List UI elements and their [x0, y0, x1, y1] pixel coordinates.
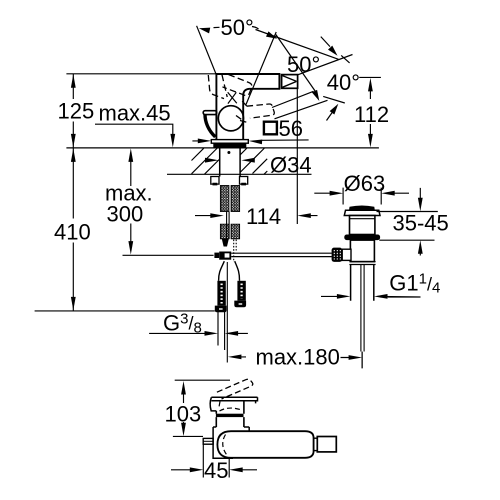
svg-text:114: 114: [246, 204, 281, 229]
horizontal pop-up rod to waste: [231, 253, 332, 256]
aerator tip box (front view): [282, 75, 298, 89]
mounting shank through deck: [220, 148, 240, 177]
svg-text:35-45: 35-45: [393, 210, 449, 235]
dim 45: [171, 445, 257, 478]
dim G1 1/4: [321, 295, 421, 298]
svg-text:112: 112: [354, 102, 389, 127]
flexible hoses: [219, 261, 240, 281]
steep leader line SG: [276, 35, 316, 93]
dim O63: [314, 188, 409, 205]
ball joint circle: [218, 106, 243, 131]
side view: dashed waterway arc: [223, 435, 227, 455]
nuts under deck: [211, 177, 248, 185]
waste upper body: [350, 216, 375, 235]
dim 112: [359, 77, 381, 142]
40 lower leader: [327, 112, 333, 121]
side view: spout cylinder: [217, 431, 313, 458]
waste seal ring: [344, 235, 380, 241]
deck underside / O34 leader line: [167, 173, 312, 175]
svg-text:max.180: max.180: [256, 345, 340, 370]
faucet body outline (front view): [216, 74, 279, 140]
side view: small tab left: [203, 438, 213, 444]
pop-up rod T-joint: [214, 252, 231, 260]
angle dimension lines top: [197, 26, 353, 121]
bottom reference line 410: [35, 310, 215, 312]
side view: dashed cartridge: [219, 402, 240, 412]
threaded shank sections: [220, 186, 239, 239]
waste top dome cap: [332, 206, 380, 369]
deck hatched section: [191, 148, 267, 174]
tick T1: [341, 55, 349, 63]
svg-text:45: 45: [204, 458, 228, 483]
svg-text:125: 125: [58, 99, 95, 124]
lever axis vertical L1: [197, 26, 216, 74]
top reference line: [66, 73, 216, 75]
dashed lever position left: [208, 75, 227, 99]
dim 35-45: [377, 188, 438, 256]
lever axis tilted L2: [256, 30, 339, 60]
dim 103: [173, 380, 230, 436]
label square 56: [264, 122, 277, 135]
hose stud right: [234, 281, 246, 308]
dim max.45: [95, 124, 173, 141]
dotted thread right of rod: [234, 240, 237, 263]
SIDE VIEW (bottom): [203, 379, 336, 458]
dim 125/410 vertical line: [72, 74, 74, 311]
aerator axis line C2: [297, 55, 352, 75]
waste top flange: [344, 210, 380, 215]
line Q: [275, 100, 328, 119]
deck line: [66, 147, 379, 149]
pop-up rod vertical: [227, 212, 230, 240]
pivot X mark: [228, 92, 237, 103]
side view: body column: [216, 417, 244, 427]
dim 114: [195, 89, 318, 224]
svg-text:50°: 50°: [221, 15, 254, 40]
angle arrows: [198, 25, 210, 33]
svg-text:max.45: max.45: [99, 101, 171, 126]
waste tailpipe: [351, 265, 374, 301]
dashed aerator tilted down: [236, 101, 274, 123]
side view: dashed handle raised: [217, 379, 253, 399]
svg-text:410: 410: [54, 220, 91, 245]
lever axis line R: [246, 32, 276, 105]
svg-text:103: 103: [165, 402, 202, 427]
line P: [272, 91, 314, 107]
dim max.180: [234, 352, 363, 368]
svg-text:50°: 50°: [287, 52, 320, 77]
svg-text:Ø63: Ø63: [344, 171, 386, 196]
arrowheads: [71, 25, 423, 472]
dim max.300 vertical: [130, 154, 132, 249]
svg-text:Ø34: Ø34: [270, 153, 312, 178]
S1 leader: [321, 37, 330, 47]
waste rod knob: [332, 248, 343, 262]
svg-text:56: 56: [279, 116, 303, 141]
base flange: [211, 140, 248, 144]
dim G3/8: [149, 312, 248, 351]
centerline extension below faucet: [226, 262, 228, 363]
lever handle (front view, solid): [203, 111, 217, 137]
side view: lever blade: [211, 397, 257, 403]
side view: escutcheon: [213, 427, 249, 458]
side view: aerator box: [314, 438, 318, 450]
tick T2: [323, 96, 345, 103]
svg-text:300: 300: [107, 202, 144, 227]
hose stud left: [215, 281, 227, 313]
waste lower body: [350, 240, 374, 262]
DIMENSIONS: [35, 74, 438, 478]
dim flange width + square56 leader: [192, 140, 308, 141]
side view: heavy joint bar: [216, 414, 244, 417]
svg-text:40°: 40°: [327, 70, 360, 95]
dashed lever position right: [223, 75, 252, 96]
50 top arc stubs: [214, 27, 259, 30]
rod extension line left: [123, 254, 214, 256]
side view: cartridge body: [216, 401, 244, 414]
